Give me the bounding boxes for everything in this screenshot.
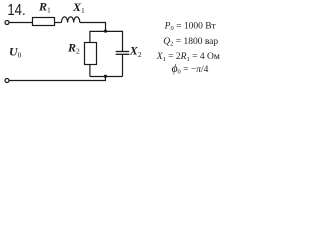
wire bottom bar xyxy=(90,76,123,78)
svg-text:Q2 = 1800 вар: Q2 = 1800 вар xyxy=(163,37,218,48)
node bottom junction xyxy=(104,75,107,78)
wire left branch xyxy=(89,31,91,43)
wire xyxy=(122,54,124,76)
wire right branch xyxy=(122,31,124,52)
svg-text:ϕ 0 = −π/4: ϕ 0 = −π/4 xyxy=(172,63,209,76)
wire xyxy=(89,65,91,77)
svg-text:P0 = 1000 Вт: P0 = 1000 Вт xyxy=(164,21,217,32)
resistor R1 xyxy=(33,18,55,26)
svg-text:R1: R1 xyxy=(38,0,51,15)
svg-text:U0: U0 xyxy=(9,44,22,59)
svg-text:14.: 14. xyxy=(7,2,25,19)
svg-text:X2: X2 xyxy=(129,44,142,59)
wire xyxy=(9,76,105,80)
inductor X1 xyxy=(62,17,80,23)
terminal top-left xyxy=(5,21,9,25)
wire xyxy=(80,23,106,32)
wire top bar xyxy=(90,30,123,32)
node top junction xyxy=(104,30,107,33)
terminal bottom-left xyxy=(5,79,9,83)
capacitor X2 xyxy=(116,51,130,53)
wire xyxy=(55,22,62,24)
resistor R2 xyxy=(85,43,97,65)
svg-text:X1 = 2R1 = 4 Ом: X1 = 2R1 = 4 Ом xyxy=(156,52,220,63)
svg-text:R2: R2 xyxy=(67,40,80,55)
svg-text:X1: X1 xyxy=(72,0,85,15)
wire xyxy=(9,22,32,24)
